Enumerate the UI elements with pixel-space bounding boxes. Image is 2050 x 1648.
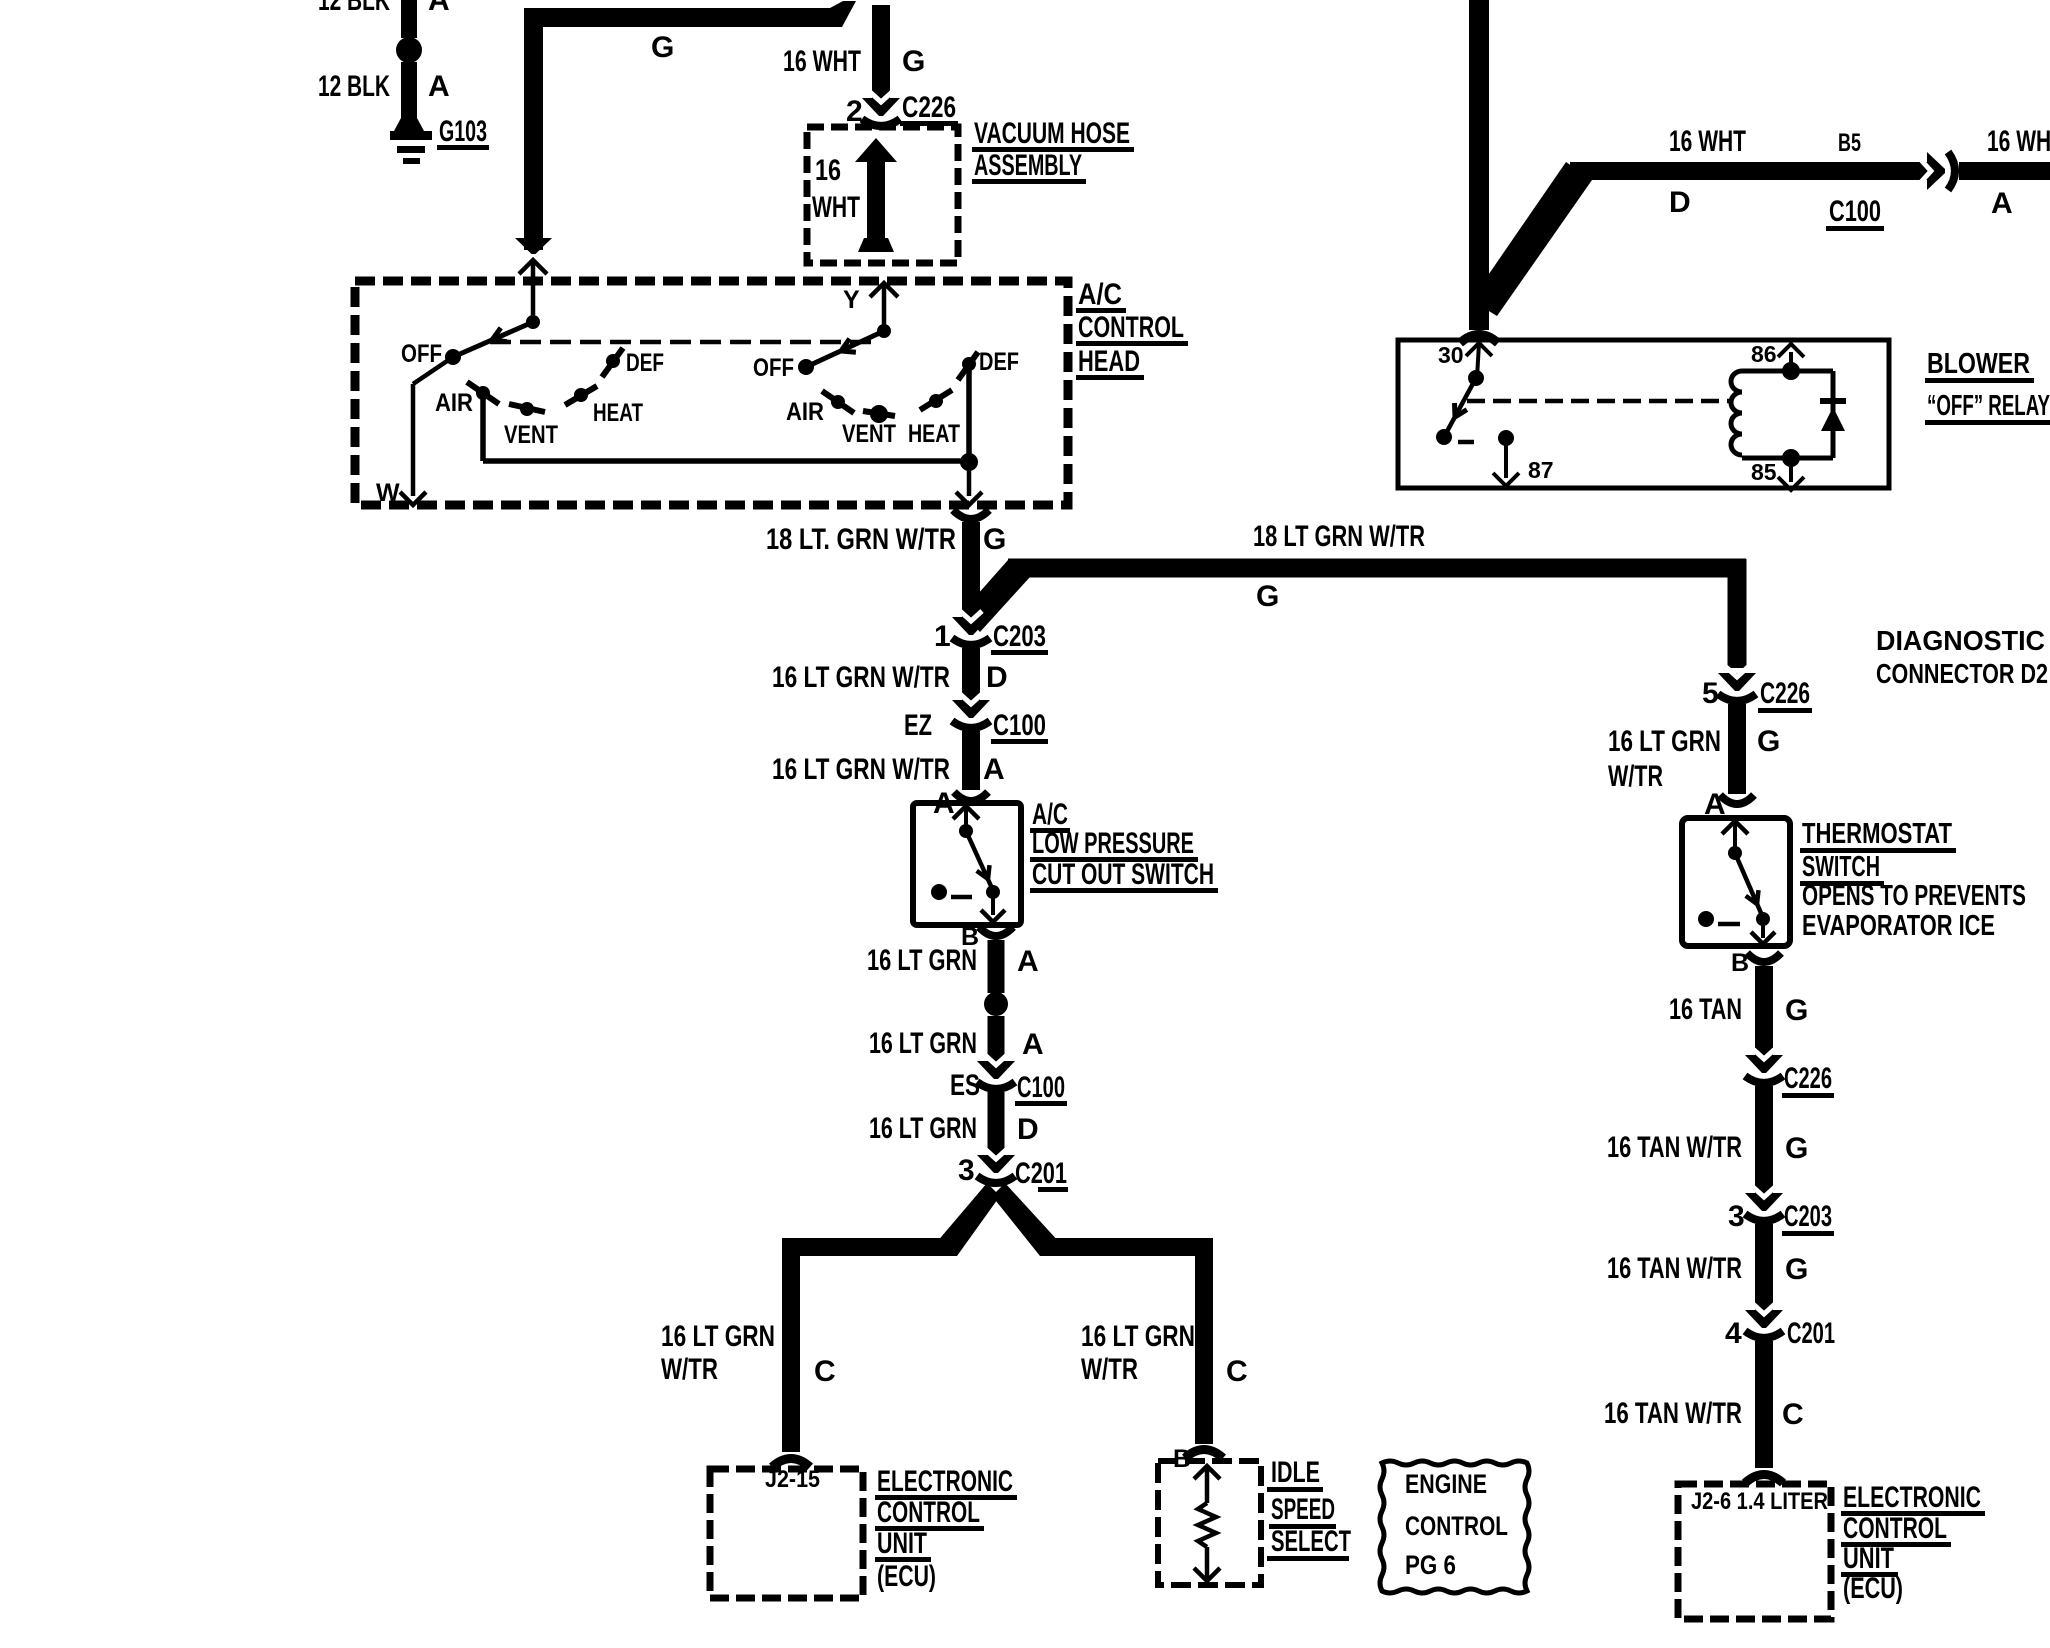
svg-text:C201: C201 xyxy=(1787,1317,1835,1350)
svg-text:C226: C226 xyxy=(902,91,956,124)
splice dot xyxy=(984,992,1008,1016)
svg-text:C: C xyxy=(814,1355,836,1388)
relay contact left xyxy=(1436,429,1452,445)
connector 1 C203 xyxy=(952,617,990,635)
svg-text:16 LT GRN: 16 LT GRN xyxy=(1081,1320,1195,1353)
svg-text:ELECTRONIC: ELECTRONIC xyxy=(1843,1481,1981,1514)
svg-text:IDLE: IDLE xyxy=(1271,1456,1320,1489)
A/C head exit arrow xyxy=(967,462,972,496)
svg-text:5: 5 xyxy=(1702,677,1719,710)
wire 16 LT GRN (A2) xyxy=(988,1016,1005,1063)
connector ES C100 xyxy=(977,1061,1015,1079)
blower off relay box xyxy=(1398,340,1889,488)
svg-text:16 WHT: 16 WHT xyxy=(783,45,861,78)
svg-text:CONTROL: CONTROL xyxy=(1078,311,1184,344)
ground G103 xyxy=(394,118,424,131)
wire 16 LT GRN W/TR (G) xyxy=(1728,704,1746,794)
svg-text:3: 3 xyxy=(958,1154,975,1187)
svg-text:DIAGNOSTIC: DIAGNOSTIC xyxy=(1876,625,2045,656)
svg-text:G: G xyxy=(1785,1132,1808,1165)
wire 16 WHT vertical (relay feed) xyxy=(1469,0,1489,330)
svg-text:C100: C100 xyxy=(993,709,1046,742)
splice S (12 BLK) xyxy=(396,37,422,63)
LP switch entry arrow xyxy=(953,806,979,819)
mechanical link (dashed) xyxy=(490,340,876,345)
left switch entry arrow xyxy=(519,260,547,274)
engine control PG 6 box (wavy) xyxy=(1380,1461,1529,1593)
svg-text:B: B xyxy=(1731,949,1749,977)
contact OFF (right) xyxy=(798,359,814,375)
relay pin 86 arrow xyxy=(1789,352,1793,371)
contact AIR (left) xyxy=(476,386,490,400)
svg-text:AIR: AIR xyxy=(786,398,824,426)
svg-text:“OFF” RELAY: “OFF” RELAY xyxy=(1927,390,2050,422)
svg-text:OPENS TO PREVENTS: OPENS TO PREVENTS xyxy=(1802,880,2026,912)
svg-text:W: W xyxy=(376,479,400,507)
idle speed select box xyxy=(1158,1461,1261,1585)
thermo contact left xyxy=(1698,911,1714,927)
connector 3 C203 (tan) xyxy=(1745,1193,1783,1211)
connector cup below A/C head xyxy=(953,510,989,519)
svg-text:C226: C226 xyxy=(1760,677,1810,710)
svg-text:G: G xyxy=(983,523,1006,556)
svg-text:CONTROL: CONTROL xyxy=(877,1496,980,1529)
wire AIR drop xyxy=(480,396,486,461)
wire 18 LT GRN W/TR xyxy=(962,522,980,620)
contact HEAT (left) xyxy=(574,388,588,402)
svg-text:DEF: DEF xyxy=(626,349,664,377)
wire 18 LT GRN W/TR horizontal xyxy=(1008,559,1746,578)
svg-text:J2-6 1.4 LITER: J2-6 1.4 LITER xyxy=(1691,1488,1828,1515)
wire 12 BLK (cut off at top) xyxy=(401,0,417,38)
svg-text:HEAD: HEAD xyxy=(1078,345,1140,378)
connector C226 (tan) xyxy=(1745,1055,1783,1073)
electronic control unit box (left) xyxy=(710,1469,863,1598)
A/C control head box xyxy=(355,281,1068,505)
wire 16 LT GRN (A) xyxy=(988,940,1005,993)
svg-text:1: 1 xyxy=(934,620,951,653)
terminal skirt idle xyxy=(1185,1450,1223,1459)
svg-text:16 TAN W/TR: 16 TAN W/TR xyxy=(1604,1397,1742,1430)
contact VENT (left) xyxy=(520,402,534,416)
wire DEF drop xyxy=(966,370,972,461)
svg-text:PG 6: PG 6 xyxy=(1405,1550,1456,1580)
svg-text:UNIT: UNIT xyxy=(1843,1542,1894,1575)
svg-text:VENT: VENT xyxy=(504,421,558,449)
svg-text:16 LT GRN: 16 LT GRN xyxy=(661,1320,775,1353)
svg-text:C203: C203 xyxy=(1784,1200,1832,1233)
terminal skirt right ECU xyxy=(1745,1475,1783,1484)
svg-text:86: 86 xyxy=(1751,341,1777,367)
svg-text:12 BLK: 12 BLK xyxy=(318,0,390,17)
svg-text:A: A xyxy=(428,0,450,17)
svg-text:VENT: VENT xyxy=(842,420,896,448)
svg-text:G: G xyxy=(651,31,674,64)
svg-text:WHT: WHT xyxy=(812,191,860,224)
contact DEF (right) xyxy=(962,357,976,371)
svg-text:ASSEMBLY: ASSEMBLY xyxy=(974,149,1082,182)
svg-text:18 LT GRN W/TR: 18 LT GRN W/TR xyxy=(1253,520,1425,553)
svg-text:30: 30 xyxy=(1438,342,1464,368)
right switch pivot xyxy=(877,324,891,338)
wire right branch xyxy=(1040,1238,1213,1256)
svg-text:ELECTRONIC: ELECTRONIC xyxy=(877,1465,1013,1498)
relay contact right xyxy=(1498,430,1514,446)
relay pin 87 arrow xyxy=(1504,438,1508,478)
wire branch vertical xyxy=(1728,559,1747,668)
svg-text:SWITCH: SWITCH xyxy=(1802,851,1880,883)
svg-text:16 TAN: 16 TAN xyxy=(1669,993,1742,1026)
relay wiper xyxy=(1444,378,1476,437)
svg-text:G103: G103 xyxy=(439,115,487,148)
A/C low pressure cut out switch box xyxy=(913,803,1021,925)
diode CR1 xyxy=(1820,398,1846,404)
thermo contact dash xyxy=(1718,922,1740,927)
wire G horizontal (top) xyxy=(524,1,856,27)
svg-text:16 LT GRN: 16 LT GRN xyxy=(869,1027,977,1060)
thermo exit arrow xyxy=(1761,919,1765,938)
relay mech dashed line xyxy=(1467,399,1733,404)
wire 16 LT GRN (D) xyxy=(988,1092,1005,1157)
contact DEF (left) xyxy=(606,354,620,368)
wire 16 WHT (top) xyxy=(872,5,890,100)
svg-text:2: 2 xyxy=(846,95,863,128)
svg-text:16 TAN W/TR: 16 TAN W/TR xyxy=(1607,1131,1742,1164)
right switch entry arrow xyxy=(870,283,898,297)
svg-text:16 TAN W/TR: 16 TAN W/TR xyxy=(1607,1252,1742,1285)
svg-text:A: A xyxy=(1022,1028,1044,1061)
svg-text:Y: Y xyxy=(843,286,860,314)
wire 16 LT GRN W/TR (D) xyxy=(962,648,980,701)
svg-text:AIR: AIR xyxy=(435,389,473,417)
svg-text:G: G xyxy=(1757,725,1780,758)
svg-text:C226: C226 xyxy=(1784,1062,1832,1095)
connector 5 C226 xyxy=(1718,673,1756,691)
connector 4 C201 (tan) xyxy=(1745,1310,1783,1328)
svg-text:J2-15: J2-15 xyxy=(765,1466,820,1493)
svg-text:16 LT GRN W/TR: 16 LT GRN W/TR xyxy=(772,661,950,694)
svg-text:C203: C203 xyxy=(993,620,1046,653)
svg-text:D: D xyxy=(1669,186,1691,219)
svg-text:16 LT GRN: 16 LT GRN xyxy=(867,944,977,977)
wire branch diagonal (16 WHT) xyxy=(1471,162,1592,316)
wire 16 TAN W/TR 3 xyxy=(1755,1341,1773,1468)
svg-text:16 LT GRN: 16 LT GRN xyxy=(869,1112,977,1145)
svg-text:C: C xyxy=(1226,1355,1248,1388)
wire 16 TAN xyxy=(1755,966,1773,1056)
junction dot xyxy=(960,453,978,471)
thermo wiper xyxy=(1735,853,1761,913)
idle entry arrow xyxy=(1194,1466,1220,1479)
svg-text:HEAT: HEAT xyxy=(908,420,960,448)
resistor (idle speed select) xyxy=(1198,1503,1216,1547)
wire 12 BLK xyxy=(401,62,417,120)
wire split left diagonal xyxy=(936,1183,1000,1256)
LP switch contact dash xyxy=(951,895,972,900)
svg-text:18 LT. GRN W/TR: 18 LT. GRN W/TR xyxy=(766,523,956,556)
LP switch pivot xyxy=(959,824,973,838)
svg-text:G: G xyxy=(902,45,925,78)
left switch wiper xyxy=(453,322,533,357)
svg-text:W/TR: W/TR xyxy=(661,1353,718,1386)
LP switch exit arrow xyxy=(991,892,995,915)
svg-text:16 WHT: 16 WHT xyxy=(1987,125,2050,158)
svg-text:VACUUM HOSE: VACUUM HOSE xyxy=(974,117,1130,150)
thermo pivot xyxy=(1728,846,1742,860)
connector 3 C201 xyxy=(977,1155,1015,1173)
connector EZ C100 xyxy=(952,700,990,718)
terminal skirt J2-15 xyxy=(772,1459,810,1468)
thermo entry arrow xyxy=(1722,821,1748,834)
LP switch contact right xyxy=(986,885,1000,899)
svg-text:EZ: EZ xyxy=(904,709,932,742)
right switch wiper xyxy=(806,331,884,367)
svg-text:(ECU): (ECU) xyxy=(1843,1572,1903,1605)
relay coil top junction xyxy=(1782,362,1800,380)
connector male at A/C head (left) xyxy=(515,238,552,254)
relay contact dash xyxy=(1458,440,1474,445)
svg-text:OFF: OFF xyxy=(401,340,442,368)
svg-text:CONTROL: CONTROL xyxy=(1843,1512,1947,1545)
svg-text:12 BLK: 12 BLK xyxy=(318,70,390,103)
svg-text:A: A xyxy=(1991,187,2013,220)
svg-text:C201: C201 xyxy=(1015,1157,1067,1190)
electronic control unit box (right) xyxy=(1678,1484,1831,1619)
svg-text:SELECT: SELECT xyxy=(1271,1525,1351,1558)
wire 16 WHT inside vacuum box xyxy=(867,155,885,242)
left switch pivot xyxy=(526,315,540,329)
svg-text:CONNECTOR D2: CONNECTOR D2 xyxy=(1876,658,2048,689)
svg-text:C100: C100 xyxy=(1017,1071,1065,1104)
vacuum hose assembly box xyxy=(807,127,958,263)
svg-text:D: D xyxy=(1017,1113,1039,1146)
svg-text:EVAPORATOR ICE: EVAPORATOR ICE xyxy=(1802,910,1995,942)
svg-text:16 WHT: 16 WHT xyxy=(1669,125,1746,158)
wire to junction xyxy=(483,458,969,464)
relay coil xyxy=(1731,371,1742,455)
wire 16 WHT horizontal xyxy=(1570,162,1929,180)
wire split right diagonal xyxy=(992,1183,1060,1256)
thermo contact right xyxy=(1756,912,1770,926)
relay pin 30 arrow xyxy=(1466,343,1492,356)
relay coil bottom junction xyxy=(1782,449,1800,467)
contact HEAT (right) xyxy=(929,394,943,408)
svg-text:C: C xyxy=(1782,1398,1804,1431)
svg-text:G: G xyxy=(1256,580,1279,613)
svg-text:A: A xyxy=(1017,945,1039,978)
svg-text:W/TR: W/TR xyxy=(1608,760,1663,793)
svg-text:THERMOSTAT: THERMOSTAT xyxy=(1802,818,1952,850)
svg-text:D: D xyxy=(986,661,1008,694)
contact AIR (right) xyxy=(831,395,845,409)
connector 2 C226 xyxy=(862,98,900,116)
wire 16 TAN W/TR xyxy=(1755,1086,1773,1194)
connector B5 C100 xyxy=(1927,152,1945,190)
svg-text:LOW PRESSURE: LOW PRESSURE xyxy=(1032,827,1194,860)
svg-text:16 LT GRN W/TR: 16 LT GRN W/TR xyxy=(772,753,950,786)
relay pivot dot xyxy=(1468,370,1484,386)
wire 16 WHT horizontal 2 xyxy=(1959,162,2050,180)
wire OFF to W xyxy=(413,357,453,384)
svg-text:DEF: DEF xyxy=(979,348,1019,376)
svg-text:A/C: A/C xyxy=(1078,278,1122,311)
wire 16 LT GRN W/TR (A) xyxy=(962,731,980,790)
svg-text:(ECU): (ECU) xyxy=(877,1560,936,1593)
svg-text:HEAT: HEAT xyxy=(593,399,643,427)
svg-text:SPEED: SPEED xyxy=(1271,1493,1335,1526)
svg-text:CONTROL: CONTROL xyxy=(1405,1511,1508,1541)
svg-text:A: A xyxy=(428,70,450,103)
contact OFF (left) xyxy=(445,349,461,365)
svg-text:CUT OUT SWITCH: CUT OUT SWITCH xyxy=(1032,858,1214,891)
terminal skirt at relay xyxy=(1460,335,1498,344)
svg-text:87: 87 xyxy=(1528,457,1554,483)
connector cup below thermostat xyxy=(1747,953,1781,962)
svg-text:B5: B5 xyxy=(1838,129,1861,157)
svg-text:G: G xyxy=(1785,1253,1808,1286)
svg-text:A: A xyxy=(983,753,1005,786)
svg-text:BLOWER: BLOWER xyxy=(1927,348,2030,380)
svg-text:16: 16 xyxy=(815,154,841,187)
thermostat switch box xyxy=(1682,818,1790,946)
connector cup at thermostat xyxy=(1720,795,1754,804)
svg-text:3: 3 xyxy=(1728,1200,1745,1233)
svg-text:16 LT GRN: 16 LT GRN xyxy=(1608,725,1721,758)
svg-text:W/TR: W/TR xyxy=(1081,1353,1138,1386)
wire branch diagonal xyxy=(962,560,1030,632)
svg-text:ENGINE: ENGINE xyxy=(1405,1469,1487,1499)
wire left branch xyxy=(782,1238,957,1256)
wire G vertical xyxy=(524,8,543,250)
svg-text:C100: C100 xyxy=(1829,195,1881,228)
svg-text:G: G xyxy=(1785,994,1808,1027)
relay pin 85 arrow xyxy=(1789,458,1793,482)
svg-text:OFF: OFF xyxy=(753,354,794,382)
svg-text:4: 4 xyxy=(1725,1317,1742,1350)
idle exit arrow xyxy=(1205,1547,1210,1579)
LP switch contact left xyxy=(931,884,947,900)
LP switch wiper xyxy=(966,831,991,886)
svg-text:UNIT: UNIT xyxy=(877,1527,927,1560)
connector cup below LP switch xyxy=(979,927,1013,936)
contact VENT (right) xyxy=(870,405,888,423)
connector cup at LP switch xyxy=(954,792,988,801)
svg-text:85: 85 xyxy=(1751,459,1777,485)
svg-text:ES: ES xyxy=(950,1069,980,1102)
wire 16 TAN W/TR 2 xyxy=(1755,1224,1773,1311)
